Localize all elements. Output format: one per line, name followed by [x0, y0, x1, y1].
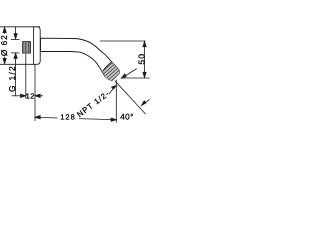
vertical extension line below outlet — [115, 80, 117, 123]
svg-text:Ø 62: Ø 62 — [0, 34, 9, 56]
outlet thread (hatched) — [99, 58, 122, 82]
angle arrow lower (points at axis line) — [142, 100, 150, 106]
dimension 50 line with arrows — [143, 42, 146, 78]
extension line flange top — [0, 26, 40, 28]
extension line at x=25.8 (thread end) — [25, 54, 27, 99]
outlet axis extension line 43deg — [115, 81, 146, 114]
dimension G1/2 bottom arrow and leader — [11, 53, 20, 96]
angle arrow upper (points at horizontal line) — [122, 69, 137, 79]
dimension G1/2 top arrow — [11, 27, 20, 40]
dimension 12 arrows — [12, 94, 44, 97]
dimension 128 line with arrows — [35, 116, 116, 122]
svg-text:G 1/2: G 1/2 — [7, 65, 17, 92]
shower arm tube — [41, 38, 120, 80]
svg-text:40°: 40° — [120, 113, 134, 122]
svg-text:128: 128 — [60, 113, 76, 122]
svg-text:12: 12 — [26, 91, 35, 100]
wall flange (escutcheon, side view) — [34, 27, 41, 65]
extension line flange bottom — [0, 63, 35, 65]
dimension D62 line — [3, 27, 6, 63]
wall thread (hatched) — [23, 42, 31, 54]
svg-text:50: 50 — [136, 53, 146, 65]
bottom extension line y=78 — [121, 77, 150, 79]
NPT 1/2 leader arrow — [109, 86, 117, 95]
svg-text:NPT 1/2-: NPT 1/2- — [75, 89, 111, 119]
right extension line y=41 — [100, 40, 146, 42]
extension line at x=35 (flange plane) — [34, 64, 36, 121]
